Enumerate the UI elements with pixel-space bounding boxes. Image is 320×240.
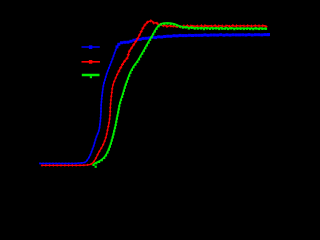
- curve series 1 (blue, filled-square markers): [40, 34, 269, 163]
- legend sample 3 (green thick line + small dot marker): [82, 75, 100, 78]
- legend sample 1 (blue line + square marker): [82, 45, 100, 49]
- plot background: [0, 0, 274, 192]
- curve series 2 (red, plus markers): [42, 21, 266, 166]
- legend sample 2 (red line + square marker): [82, 60, 101, 64]
- curve series 3 (green, small dot markers): [94, 23, 267, 164]
